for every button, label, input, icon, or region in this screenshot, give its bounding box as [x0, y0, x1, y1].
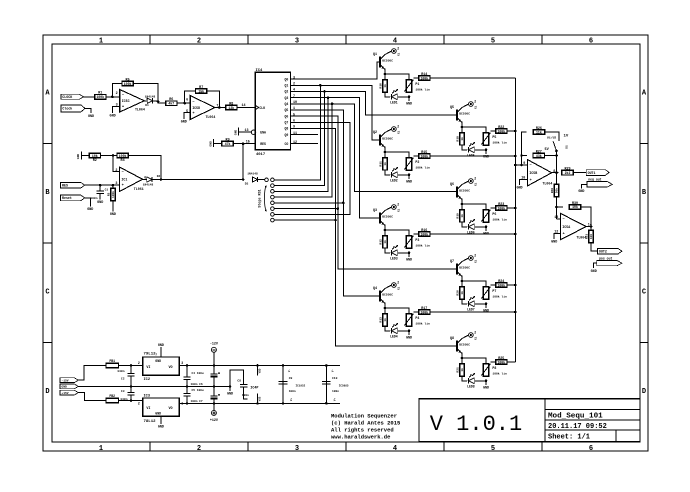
feedback riser [520, 132, 526, 165]
resistor R12 [380, 236, 388, 248]
wire IC5B output to R28 [556, 173, 558, 184]
resistor R24 [496, 280, 507, 287]
connector pin X1-6 [469, 176, 478, 186]
diode D2 [147, 177, 152, 182]
wire P2 wiper to R15 [413, 155, 418, 157]
wire GND flag to R9 [214, 143, 222, 145]
ground below Clock flag [88, 115, 94, 119]
input flag +15V [60, 390, 78, 395]
wire D1 to R6 [152, 100, 166, 103]
wire to IC5A pin13 [557, 218, 561, 220]
svg-text:VI: VI [146, 366, 150, 370]
svg-text:LED7: LED7 [467, 307, 475, 311]
capacitor C5 electrolytic [210, 394, 220, 400]
svg-text:C5 100u: C5 100u [192, 389, 204, 392]
svg-text:100k: 100k [420, 232, 428, 236]
svg-text:100k: 100k [497, 206, 505, 210]
capacitor C6 [183, 377, 190, 379]
svg-text:BC550C: BC550C [382, 215, 393, 218]
input flag RES [61, 182, 85, 188]
svg-text:100k: 100k [497, 283, 505, 287]
svg-text:GND: GND [158, 344, 164, 348]
wire Q6 collector to connector [462, 181, 468, 184]
potentiometer P6 [481, 210, 507, 222]
svg-text:Q0: Q0 [284, 77, 288, 81]
svg-text:X1: X1 [474, 105, 477, 109]
ground below neg out [578, 190, 584, 194]
svg-text:43k: 43k [536, 154, 542, 158]
svg-text:5: 5 [293, 113, 295, 117]
svg-text:1k: 1k [460, 291, 464, 295]
wire C4 bottom [213, 378, 215, 387]
wire Reset flag to ground [85, 198, 91, 206]
wire IC5D +input to ground [184, 113, 190, 119]
capacitor C9 [279, 377, 296, 393]
svg-text:FB2: FB2 [109, 394, 115, 398]
svg-text:100k: 100k [111, 191, 115, 198]
svg-text:3: 3 [181, 361, 183, 365]
svg-text:BC550C: BC550C [459, 266, 470, 269]
svg-text:1k: 1k [383, 318, 387, 322]
potentiometer P3 [404, 236, 430, 248]
svg-text:IC5D: IC5D [192, 106, 200, 110]
svg-text:Q5: Q5 [284, 108, 288, 112]
svg-text:5: 5 [491, 445, 495, 453]
potentiometer P2 [404, 158, 430, 170]
transistor Q1 [373, 53, 393, 69]
wire pot P6 bottom to ground [485, 227, 487, 231]
svg-text:Q3: Q3 [373, 209, 377, 213]
wire R18 to LED5 [462, 145, 467, 150]
wire Q2 pin4 to Q5 base [291, 90, 457, 115]
svg-text:GND: GND [591, 270, 597, 274]
svg-text:100k lin: 100k lin [415, 244, 430, 248]
svg-text:X1: X1 [474, 336, 477, 340]
svg-text:R12: R12 [380, 239, 383, 245]
hierarchical label Clock flag [61, 105, 85, 112]
svg-text:4017: 4017 [256, 153, 266, 157]
LED LED2 [390, 167, 398, 182]
wire Q8 collector to connector [462, 335, 468, 338]
svg-text:IC4P: IC4P [250, 387, 258, 391]
svg-text:GND: GND [158, 426, 164, 430]
wire R21 to LED8 [462, 376, 467, 381]
svg-text:C: C [45, 289, 49, 297]
resistor R29 [562, 168, 573, 175]
resistor R14 [419, 73, 430, 80]
resistor R11 [380, 158, 388, 170]
svg-text:100k: 100k [497, 360, 505, 364]
label D3 [245, 182, 249, 185]
resistor R31 [586, 230, 594, 242]
svg-text:CLK: CLK [259, 106, 265, 110]
svg-text:5: 5 [491, 38, 495, 46]
diode D3 [252, 177, 257, 182]
resistor R6 [166, 98, 177, 105]
svg-text:neg out: neg out [588, 177, 601, 181]
svg-text:U1/U2: U1/U2 [547, 136, 556, 140]
wire Q3 collector to connector [385, 207, 391, 210]
wire R12 to LED3 [385, 248, 390, 253]
svg-text:Q4: Q4 [373, 287, 377, 291]
wire Q4 emitter to junction [384, 303, 387, 314]
wire IC5A output [586, 227, 591, 231]
svg-text:2: 2 [397, 46, 399, 50]
feedback wire junction to R5 [112, 84, 121, 97]
svg-text:100k lin: 100k lin [492, 218, 507, 222]
potentiometer P1 [404, 80, 430, 92]
svg-text:IC1: IC1 [121, 178, 127, 182]
svg-text:R19: R19 [457, 213, 460, 219]
capacitor value labels C4 C5 C6 C7 [191, 372, 204, 403]
svg-text:1k: 1k [460, 214, 464, 218]
ground below Reset flag [87, 208, 93, 212]
svg-text:V-: V- [288, 369, 291, 373]
svg-text:R21: R21 [457, 367, 460, 373]
switch U1/U2 blade [553, 141, 558, 152]
wire P5 wiper to R22 [490, 130, 495, 132]
svg-text:BC550C: BC550C [382, 59, 393, 62]
svg-text:6: 6 [589, 38, 593, 46]
svg-text:R2: R2 [93, 159, 97, 163]
wire R31 to OUT2 [591, 243, 598, 251]
svg-text:2: 2 [397, 202, 399, 206]
wire R3 to ground [112, 201, 114, 212]
svg-text:GND: GND [406, 102, 412, 106]
svg-text:GND: GND [516, 187, 522, 191]
wire LED2 to pot bottom [398, 174, 410, 177]
svg-text:X1: X1 [397, 130, 400, 134]
resistor R2 [89, 153, 100, 163]
svg-text:All rights reserved: All rights reserved [331, 427, 394, 434]
svg-text:IC5985: IC5985 [339, 385, 349, 388]
ground above IC2 [158, 344, 164, 348]
pin number 15 on RES wire [246, 140, 250, 144]
svg-text:CO: CO [284, 142, 288, 146]
potentiometer P7 [481, 287, 507, 299]
svg-text:100n: 100n [242, 394, 249, 397]
svg-text:15k: 15k [198, 89, 204, 93]
capacitor C10 [322, 377, 339, 393]
wire R15 output to bus [430, 155, 515, 157]
wire -12V port stub [213, 352, 215, 365]
wire Q5 pin1 to Q4 base [291, 110, 380, 296]
IC4 ENA inversion bubble [251, 130, 255, 134]
wire LED6 to pot bottom [475, 226, 487, 229]
transistor Q2 [373, 131, 393, 147]
svg-text:Q2: Q2 [373, 131, 377, 135]
svg-text:P2: P2 [415, 160, 419, 164]
svg-text:2: 2 [397, 124, 399, 128]
power port +12V [210, 410, 219, 422]
svg-text:GND: GND [483, 386, 489, 390]
svg-text:100n C6: 100n C6 [191, 383, 203, 386]
svg-text:100n: 100n [332, 390, 339, 393]
svg-text:3: 3 [293, 76, 295, 80]
op-amp IC5C [116, 90, 148, 113]
svg-text:1k: 1k [383, 84, 387, 88]
wire Q8 emitter to junction [461, 353, 464, 364]
svg-text:9: 9 [523, 162, 525, 166]
svg-text:VDD: VDD [259, 368, 262, 373]
wire R10 to LED1 [385, 92, 390, 97]
wire LED5 to pot bottom [475, 149, 487, 152]
input flag GND [60, 384, 78, 389]
svg-text:OUT2: OUT2 [599, 250, 607, 254]
wire R6 to IC5D input [177, 102, 190, 105]
wire Q2 emitter to junction [384, 147, 387, 158]
wire Q1 collector to connector [385, 51, 391, 54]
svg-text:GND: GND [234, 130, 237, 136]
wire Q1 pin2 to Q2 base [291, 84, 380, 140]
power symbol IC5985 [331, 369, 349, 402]
svg-text:Clock: Clock [62, 107, 72, 111]
ground below IC3 [158, 426, 164, 430]
svg-text:100k: 100k [420, 154, 428, 158]
capacitor C4 electrolytic [210, 372, 220, 378]
label 1N4148 for D3 [247, 173, 258, 176]
switch contact 4 riser [274, 104, 332, 197]
svg-text:2: 2 [138, 361, 140, 365]
svg-text:100k lin: 100k lin [415, 166, 430, 170]
svg-text:R20: R20 [457, 290, 460, 296]
svg-text:Q5: Q5 [450, 106, 454, 110]
svg-text:GND: GND [61, 386, 67, 389]
svg-text:LED5: LED5 [467, 153, 475, 157]
power port -12V [210, 343, 219, 353]
svg-text:2: 2 [197, 445, 201, 453]
wire R24 output to bus [507, 284, 515, 286]
wire neg out flag to ground [581, 184, 587, 188]
wire Q7 emitter to junction [461, 276, 464, 287]
resistor R18 [457, 133, 465, 145]
svg-text:Q7: Q7 [284, 121, 288, 125]
svg-text:3: 3 [295, 445, 299, 453]
label D1 [145, 104, 149, 107]
svg-text:2: 2 [474, 253, 476, 257]
ground at IC5C +input [110, 114, 116, 118]
ground below P6 [483, 232, 489, 236]
svg-text:6: 6 [186, 99, 188, 103]
title block name Mod_Sequ_101 [548, 412, 603, 420]
resistor R23 [496, 203, 507, 210]
svg-text:X1: X1 [474, 182, 477, 186]
ground below P5 [483, 155, 489, 159]
switch contact 1 riser [274, 85, 320, 179]
wire RES bus up to pin 15 [242, 144, 244, 180]
switch U1/U2 label [547, 136, 556, 140]
wire R16 output to bus [430, 233, 515, 235]
output flag OUT1 [586, 170, 609, 176]
resistor R21 [457, 364, 465, 376]
wire Q1 emitter to junction [384, 69, 387, 80]
vertical GND flag at ENA [234, 128, 238, 136]
svg-text:OUT1: OUT1 [588, 171, 596, 175]
wire Q4 collector to connector [385, 285, 391, 288]
op-amp IC1 [115, 167, 146, 192]
resistor R17 [419, 307, 430, 314]
svg-text:Q9: Q9 [284, 133, 288, 137]
svg-text:2k2: 2k2 [565, 171, 571, 175]
wire C2 bottom [130, 376, 132, 386]
capacitor C1 [90, 189, 108, 200]
ground at rail tap [227, 392, 233, 396]
svg-text:GND: GND [110, 213, 116, 217]
wire junction to pot P8 top [462, 358, 486, 364]
svg-text:ENA: ENA [260, 131, 266, 135]
svg-text:1: 1 [99, 445, 103, 453]
svg-text:BC550C: BC550C [382, 137, 393, 140]
resistor R30 [569, 202, 580, 209]
svg-text:V+: V+ [333, 398, 336, 402]
svg-text:11: 11 [293, 132, 297, 136]
ground below P1 [406, 102, 412, 106]
svg-text:GND: GND [227, 392, 233, 396]
op-amp IC5B [521, 160, 555, 187]
LED LED5 [467, 142, 475, 157]
IC2 voltage regulator 79L12 [138, 353, 183, 382]
ground below P8 [483, 386, 489, 390]
svg-text:R31: R31 [586, 234, 589, 240]
svg-text:100k: 100k [119, 154, 127, 158]
svg-text:IC3: IC3 [144, 395, 150, 399]
connector pin X1-2 [392, 124, 401, 134]
vertical GND flag left of R2 [77, 152, 81, 160]
svg-text:1k: 1k [460, 368, 464, 372]
switch contact 6 wire [274, 208, 338, 210]
transistor Q7 [450, 260, 470, 276]
output flag OUT2 [598, 248, 622, 254]
svg-text:IC5C: IC5C [122, 99, 130, 103]
wire IC5A +input to ground [554, 233, 560, 239]
wire Q7 pin6 to switch contact 7 [274, 122, 350, 214]
svg-text:100n: 100n [289, 390, 296, 393]
title version text V 1.0.1 [430, 412, 522, 437]
net label 1V [564, 135, 569, 139]
svg-text:GND: GND [88, 115, 94, 119]
feedback wire IC5D to R7 [185, 91, 196, 103]
svg-text:Q6: Q6 [450, 183, 454, 187]
svg-text:6: 6 [589, 445, 593, 453]
capacitor C8 [237, 380, 249, 397]
wire C1 top [99, 185, 101, 191]
wire C1 to ground [99, 193, 101, 199]
svg-text:6: 6 [293, 120, 295, 124]
wire C8 bottom [244, 387, 248, 399]
svg-text:100n: 100n [90, 197, 97, 200]
svg-text:14: 14 [241, 104, 245, 108]
svg-text:2: 2 [116, 92, 118, 96]
svg-text:GND: GND [181, 121, 187, 125]
svg-text:GND: GND [155, 359, 161, 363]
wire -12V rail [179, 364, 340, 367]
svg-text:Mod_Sequ_101: Mod_Sequ_101 [548, 412, 603, 420]
wire +15V to FB2 [78, 393, 106, 401]
ground below pos out [591, 270, 597, 274]
svg-text:1N4148: 1N4148 [145, 95, 156, 98]
svg-text:BC550C: BC550C [459, 343, 470, 346]
wire R27 row [522, 155, 527, 157]
svg-text:GND: GND [406, 180, 412, 184]
svg-text:FB1: FB1 [109, 359, 115, 363]
svg-text:D2: D2 [157, 175, 161, 178]
svg-text:-15V: -15V [61, 380, 68, 383]
feedback wire to R30 [557, 206, 564, 208]
wire CO stub [291, 143, 319, 145]
svg-text:1k: 1k [460, 137, 464, 141]
svg-text:100k: 100k [124, 82, 132, 86]
wire R30 to IC5A output [581, 207, 593, 228]
resistor R9 [222, 139, 233, 146]
ground below P2 [406, 180, 412, 184]
wire R27 to output node [545, 154, 558, 157]
svg-text:2: 2 [138, 402, 140, 406]
ground at IC5A +input [551, 241, 557, 245]
svg-text:C10: C10 [332, 377, 338, 380]
svg-text:5: 5 [186, 110, 188, 114]
ground below P3 [406, 258, 412, 262]
pin number 14 on CLK wire [241, 104, 245, 108]
svg-text:C: C [642, 289, 646, 297]
op-amp IC5A [554, 213, 592, 240]
svg-text:1k: 1k [383, 162, 387, 166]
resistor R10 [380, 80, 388, 92]
wire Q0 pin3 to Q1 base [291, 62, 380, 79]
svg-text:R11: R11 [380, 161, 383, 167]
svg-text:R10: R10 [380, 83, 383, 89]
wire R11 to LED2 [385, 170, 390, 175]
LED LED4 [390, 323, 398, 338]
capacitor C3 [120, 390, 134, 401]
svg-text:1: 1 [293, 107, 295, 111]
resistor R16 [419, 229, 430, 236]
svg-text:10k: 10k [572, 205, 578, 209]
svg-text:D: D [45, 388, 49, 396]
wire GND rail [78, 385, 231, 388]
wire GND tap [229, 386, 231, 390]
IC4 right pin numbers [293, 76, 297, 144]
wire pot P4 bottom to ground [408, 331, 410, 335]
svg-text:3: 3 [295, 38, 299, 46]
svg-text:LED3: LED3 [390, 256, 398, 260]
svg-text:4: 4 [393, 445, 397, 453]
IC4P power symbol [250, 366, 261, 404]
connector pin X1-3 [392, 202, 401, 212]
svg-text:GND: GND [406, 336, 412, 340]
resistor R20 [457, 287, 465, 299]
wire Q9 stub [291, 134, 319, 136]
svg-text:20.11.17 09:52: 20.11.17 09:52 [548, 423, 607, 431]
svg-text:Q1: Q1 [373, 53, 377, 57]
svg-text:P1: P1 [415, 82, 419, 86]
title block date [548, 423, 607, 431]
svg-text:X1: X1 [474, 259, 477, 263]
wire C3 top [130, 386, 132, 392]
wire Q6 pin5 to Q7 base [291, 116, 457, 269]
resistor R26 [533, 127, 544, 134]
input flag CLOCK [61, 94, 84, 99]
resistor R15 [419, 151, 430, 158]
svg-text:7: 7 [155, 353, 157, 356]
svg-text:100: 100 [590, 234, 593, 239]
svg-text:R13: R13 [380, 317, 383, 323]
wire Q6 emitter to junction [461, 199, 464, 210]
wire C7 bottom [186, 396, 188, 403]
wire R9 to RES pin 15 [233, 142, 255, 145]
wire R4 to D2 node [128, 156, 161, 180]
svg-text:RES: RES [62, 184, 68, 188]
wire CLOCK to R1 [83, 96, 95, 98]
